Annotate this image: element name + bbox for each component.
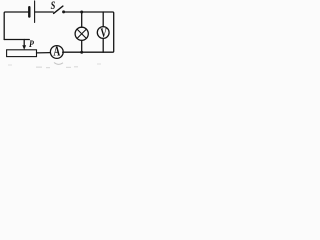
svg-text:A: A xyxy=(53,44,60,59)
svg-text:P: P xyxy=(29,38,34,49)
svg-text:V: V xyxy=(100,27,107,41)
svg-text:S: S xyxy=(51,0,56,12)
